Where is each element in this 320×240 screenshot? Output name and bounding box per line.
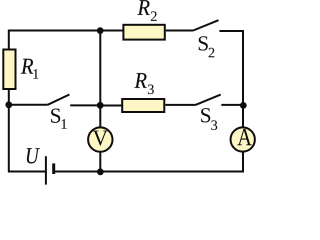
wire R2 to S2 [166,30,194,32]
label R3 subscript 3 [148,85,154,95]
wire right rail lower below ammeter [242,152,244,173]
resistor R3 [122,99,164,112]
label S1 letter S [51,109,60,123]
wire S1 contact to center node [70,104,100,106]
label S1 subscript 1 [62,119,67,128]
resistor R1 [3,50,15,90]
label R2 subscript 2 [151,11,157,20]
switch S2 blade [193,20,218,30]
node junction top middle [97,27,104,34]
wire voltmeter branch lower [99,152,101,172]
battery U short plate [52,163,55,174]
node junction right [240,102,247,109]
wire middle rail [99,31,101,105]
switch S1 blade [48,95,70,105]
label S2 subscript 2 [209,48,215,57]
battery U long plate [45,156,47,184]
label R1 letter R [21,59,33,74]
label R1 subscript 1 [33,69,38,78]
label A meter letter [237,129,251,145]
wire top horizontal from left corner to R2 [9,30,124,32]
node junction bottom [97,168,104,175]
wire voltmeter branch upper [99,105,101,128]
label R3 letter R [134,73,146,88]
label S2 letter S [199,36,208,50]
ammeter A circle [231,127,255,151]
label V meter letter [93,131,108,146]
node junction center [97,102,104,109]
switch S3 blade [196,95,221,105]
wire bottom from battery to right rail [54,171,244,173]
wire left rail [8,30,10,173]
wire S3 contact to right rail [221,104,243,106]
wire middle row left to S1 [9,104,48,106]
label R2 letter R [137,0,149,15]
wire R3 to S3 [165,104,195,106]
label S3 subscript 3 [211,120,217,130]
wire bottom left to battery [9,171,46,173]
node junction left middle [5,101,12,108]
wire S2 contact to right corner [219,30,242,32]
label U battery [27,148,40,163]
wire right rail upper [242,30,244,127]
wire center node to R3 [100,104,122,106]
label S3 letter S [201,108,210,122]
resistor R2 [123,25,164,40]
voltmeter V circle [88,127,112,151]
